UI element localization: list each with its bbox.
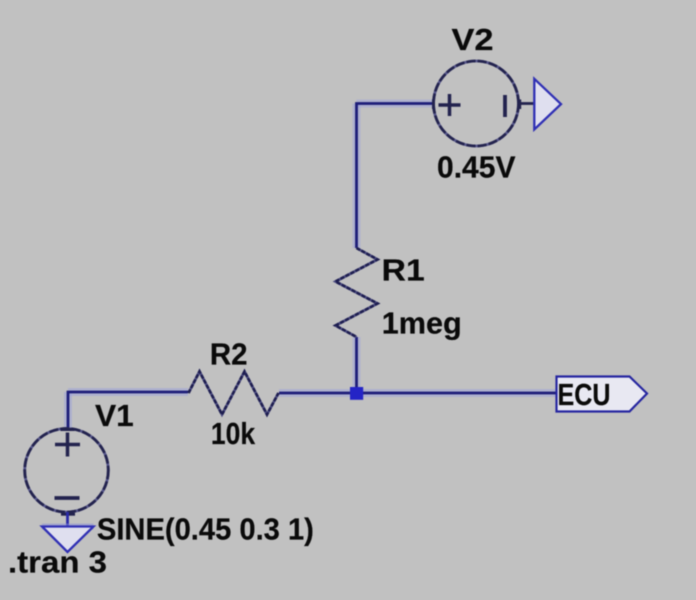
- svg-text:10k: 10k: [211, 416, 256, 451]
- node junction (R1/R2/ECU net): [350, 387, 363, 400]
- V1 top pin tick: [61, 428, 75, 431]
- wire: V1 bottom stub to ground: [66, 512, 69, 527]
- port flag ECU: [557, 377, 648, 412]
- svg-text:0.45V: 0.45V: [437, 150, 516, 185]
- svg-text:SINE(0.45 0.3 1): SINE(0.45 0.3 1): [97, 512, 314, 547]
- ground (rotated, at V2 minus): [534, 79, 561, 130]
- svg-text:V1: V1: [95, 398, 134, 433]
- V2 right pin tick: [518, 100, 521, 110]
- wire: R2 right to junction: [279, 389, 356, 397]
- svg-text:R2: R2: [210, 336, 248, 371]
- wire: R1 top up and right to V2: [357, 104, 435, 249]
- V2 plus sign: [439, 94, 461, 116]
- V2 minus sign (rotated): [503, 95, 507, 117]
- V2 left pin tick: [432, 100, 435, 110]
- wire: V1 top to R2 left: [68, 392, 188, 429]
- wire: junction to ECU port: [356, 389, 557, 397]
- svg-text:.tran 3: .tran 3: [8, 545, 107, 580]
- voltage source V1 (circle): [25, 429, 109, 513]
- resistor R1: [336, 248, 378, 337]
- wire: V2 right stub: [519, 102, 535, 105]
- svg-text:1meg: 1meg: [382, 305, 462, 340]
- V1 minus sign: [55, 496, 80, 500]
- svg-text:ECU: ECU: [558, 377, 611, 412]
- svg-text:R1: R1: [382, 253, 425, 288]
- resistor R2: [189, 372, 279, 415]
- V1 plus sign: [55, 433, 80, 457]
- svg-text:V2: V2: [452, 22, 494, 57]
- V1 bottom pin tick: [61, 513, 75, 516]
- ground (below V1): [42, 527, 94, 553]
- wire: junction up to R1 bottom: [353, 337, 361, 387]
- voltage source V2 (circle): [434, 61, 519, 146]
